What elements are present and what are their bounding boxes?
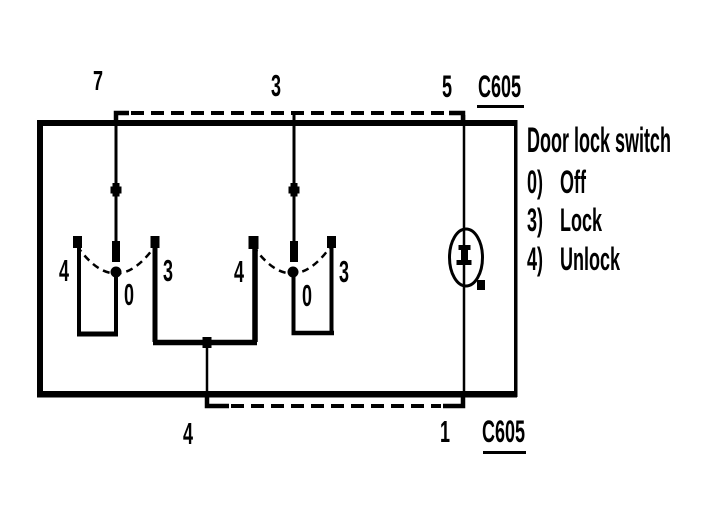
SW2 U bottom wire: [292, 331, 335, 336]
svg-text:3): 3): [527, 201, 543, 238]
svg-text:4: 4: [183, 417, 193, 451]
SW2 contact 4 dot: [249, 236, 259, 249]
wire junction to pin 4: [206, 346, 209, 407]
wire pin 5: [463, 115, 466, 396]
door lock switch outline box: [37, 120, 518, 398]
switch SW2 pivot dot: [288, 267, 299, 278]
wire pin 7: [115, 115, 118, 243]
SW2 contact 3 leg: [330, 246, 334, 335]
svg-text:3: 3: [271, 69, 281, 103]
SW1 contact 4 dot: [73, 236, 82, 248]
SW1 contact 3 leg: [153, 246, 158, 342]
svg-text:1: 1: [440, 415, 450, 449]
lamp L1 bulb outline: [450, 229, 483, 286]
svg-text:0: 0: [302, 279, 312, 313]
SW2 contact 4 leg: [252, 246, 258, 342]
SW2 contact 3 dot: [327, 236, 336, 248]
svg-text:Off: Off: [560, 163, 586, 200]
svg-text:4): 4): [527, 240, 543, 277]
svg-text:C605: C605: [478, 70, 521, 104]
SW1 centre leg wire: [114, 272, 118, 336]
svg-text:4: 4: [59, 254, 69, 288]
connector C605 bottom dashed line: [207, 394, 463, 406]
junction dot on wire 3: [289, 183, 300, 197]
svg-text:3: 3: [163, 254, 173, 288]
switch SW1 pivot dot: [111, 267, 122, 278]
switch SW1 actuator arrow: [112, 241, 120, 262]
underline C605 bottom: [483, 451, 526, 454]
SW1 contact 3 dot: [151, 236, 160, 248]
svg-text:5: 5: [442, 70, 452, 104]
underline C605 top: [477, 105, 524, 108]
svg-text:3: 3: [339, 255, 349, 289]
svg-text:4: 4: [234, 255, 244, 289]
junction dot on wire 7: [111, 183, 122, 197]
svg-text:C605: C605: [482, 415, 525, 449]
svg-text:Door lock switch: Door lock switch: [527, 121, 671, 160]
switch SW2 actuator arrow: [290, 241, 298, 262]
connector C605 top dashed line: [116, 113, 463, 126]
SW2 wire contact4 to junction: [205, 340, 257, 346]
SW1 wire contact3 to junction: [153, 340, 209, 346]
svg-text:Lock: Lock: [560, 201, 602, 238]
switch SW2 dashed arc: [253, 246, 331, 274]
svg-text:0: 0: [124, 278, 134, 312]
svg-text:7: 7: [93, 65, 103, 96]
svg-text:0): 0): [527, 163, 543, 200]
SW1 contact 4 leg: [77, 246, 81, 334]
lamp L1 filament: [457, 245, 472, 265]
switch SW1 dashed arc: [77, 246, 155, 274]
lamp L1 terminal dot: [477, 280, 485, 290]
SW2 centre leg wire: [292, 272, 296, 335]
common junction node: [203, 337, 212, 348]
SW1 U bottom wire: [77, 332, 118, 337]
wire pin 3: [293, 115, 296, 243]
svg-text:Unlock: Unlock: [560, 240, 620, 277]
